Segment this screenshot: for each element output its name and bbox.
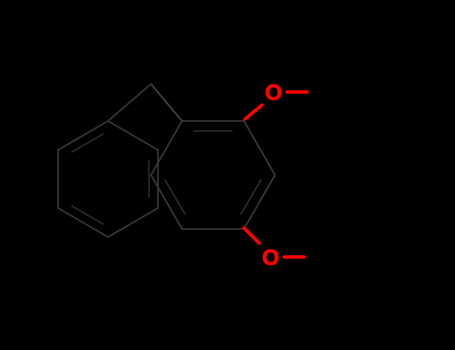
svg-text:O: O (265, 80, 282, 105)
wire vinyl bond B (108, 84, 151, 121)
wire O2 methyl bond (284, 255, 304, 258)
wire inner double bond SW-W (165, 180, 185, 214)
wire inner double bond E-SE (241, 180, 261, 214)
wire O1 methyl bond (287, 90, 307, 93)
wire inner double bond left NW-N (72, 134, 103, 152)
wire inner double bond top (194, 130, 232, 132)
wire bond NE to O1 (red half) (245, 105, 262, 119)
wire inner double bond left S-SW (72, 206, 103, 224)
svg-text:O: O (262, 245, 279, 270)
benzene ring left (58, 121, 158, 237)
wire vinyl bond A (151, 84, 182, 121)
wire bond SE to O2 (red half) (244, 228, 259, 243)
benzene ring right (151, 121, 275, 229)
wire inner double bond left right-edge (148, 161, 150, 197)
